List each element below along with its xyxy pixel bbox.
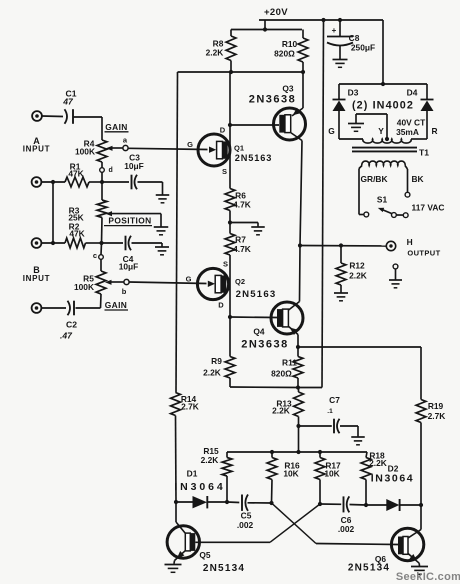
svg-text:250μF: 250μF [351,43,375,53]
svg-text:G: G [328,126,335,136]
svg-text:2.2K: 2.2K [349,271,367,281]
svg-text:2.7K: 2.7K [428,411,446,421]
svg-text:2N5134: 2N5134 [348,563,390,574]
svg-text:GAIN: GAIN [105,122,128,132]
svg-text:4.7K: 4.7K [233,200,251,210]
svg-text:G: G [187,140,193,149]
svg-text:INPUT: INPUT [23,145,51,154]
svg-text:10K: 10K [324,469,339,479]
svg-text:R: R [431,126,437,136]
svg-text:T1: T1 [419,148,429,158]
svg-text:R9: R9 [211,356,222,366]
svg-text:2.2K: 2.2K [272,406,290,416]
svg-text:2N5163: 2N5163 [236,289,277,300]
svg-text:820Ω: 820Ω [274,49,295,59]
svg-text:D4: D4 [407,88,418,98]
svg-text:820Ω: 820Ω [271,369,292,379]
svg-text:2N3638: 2N3638 [249,94,297,106]
svg-text:Q2: Q2 [235,277,245,286]
svg-text:47K: 47K [68,169,83,179]
svg-text:R19: R19 [428,401,444,411]
svg-text:D: D [220,126,226,135]
svg-text:2.7K: 2.7K [181,402,199,412]
svg-text:GR/BK: GR/BK [361,174,388,184]
svg-text:C7: C7 [329,395,340,405]
svg-text:2.2K: 2.2K [206,48,224,58]
svg-text:.002: .002 [237,520,254,530]
svg-text:2N5163: 2N5163 [235,153,273,163]
svg-text:D1: D1 [187,469,198,479]
svg-text:R11: R11 [282,358,297,368]
svg-text:117 VAC: 117 VAC [412,203,445,213]
svg-text:2.2K: 2.2K [203,368,221,378]
svg-text:b: b [122,287,127,296]
svg-text:2.2K: 2.2K [369,458,387,468]
svg-text:10μF: 10μF [119,262,139,272]
svg-text:C5: C5 [241,511,252,521]
svg-text:Q5: Q5 [199,550,211,560]
svg-text:35mA: 35mA [396,127,419,137]
svg-text:Y: Y [378,126,384,136]
svg-text:C2: C2 [66,320,77,330]
svg-text:10μF: 10μF [124,161,144,171]
svg-text:POSITION: POSITION [108,216,151,226]
svg-text:d: d [109,167,113,174]
svg-text:Q3: Q3 [282,84,294,94]
svg-text:.1: .1 [327,408,333,415]
svg-text:2N3638: 2N3638 [241,339,289,351]
svg-text:(2) IN4002: (2) IN4002 [352,100,414,112]
svg-text:IN3064: IN3064 [371,473,414,485]
svg-text:BK: BK [411,174,423,184]
svg-text:G: G [186,275,192,284]
svg-text:+: + [332,26,337,35]
svg-text:47K: 47K [69,228,84,238]
svg-text:Q1: Q1 [234,144,244,153]
svg-text:R12: R12 [349,261,365,271]
svg-text:S: S [222,167,227,176]
svg-text:.47: .47 [60,331,73,341]
svg-text:IN3064: IN3064 [174,481,225,493]
svg-text:40V CT: 40V CT [397,118,426,128]
svg-text:2N5134: 2N5134 [203,563,245,574]
svg-text:c: c [93,251,97,260]
svg-text:S: S [223,260,228,269]
svg-text:R10: R10 [282,39,298,49]
svg-text:47: 47 [62,97,74,107]
svg-text:100K: 100K [74,282,94,292]
svg-text:INPUT: INPUT [23,274,51,283]
svg-text:2.2K: 2.2K [201,455,219,465]
svg-text:H: H [407,237,413,247]
svg-text:4.7K: 4.7K [233,244,251,254]
svg-text:GAIN: GAIN [105,300,128,310]
svg-text:D3: D3 [348,88,359,98]
svg-text:C8: C8 [349,33,360,43]
svg-text:+20V: +20V [264,7,288,18]
svg-text:10K: 10K [283,469,298,479]
svg-text:OUTPUT: OUTPUT [407,248,440,257]
svg-text:R7: R7 [235,235,246,245]
svg-text:D: D [218,301,224,310]
svg-text:SeekIC.com: SeekIC.com [396,571,460,583]
svg-text:100K: 100K [75,147,95,157]
svg-text:.002: .002 [338,524,355,534]
svg-text:Q4: Q4 [253,327,265,337]
svg-text:S1: S1 [377,195,388,205]
